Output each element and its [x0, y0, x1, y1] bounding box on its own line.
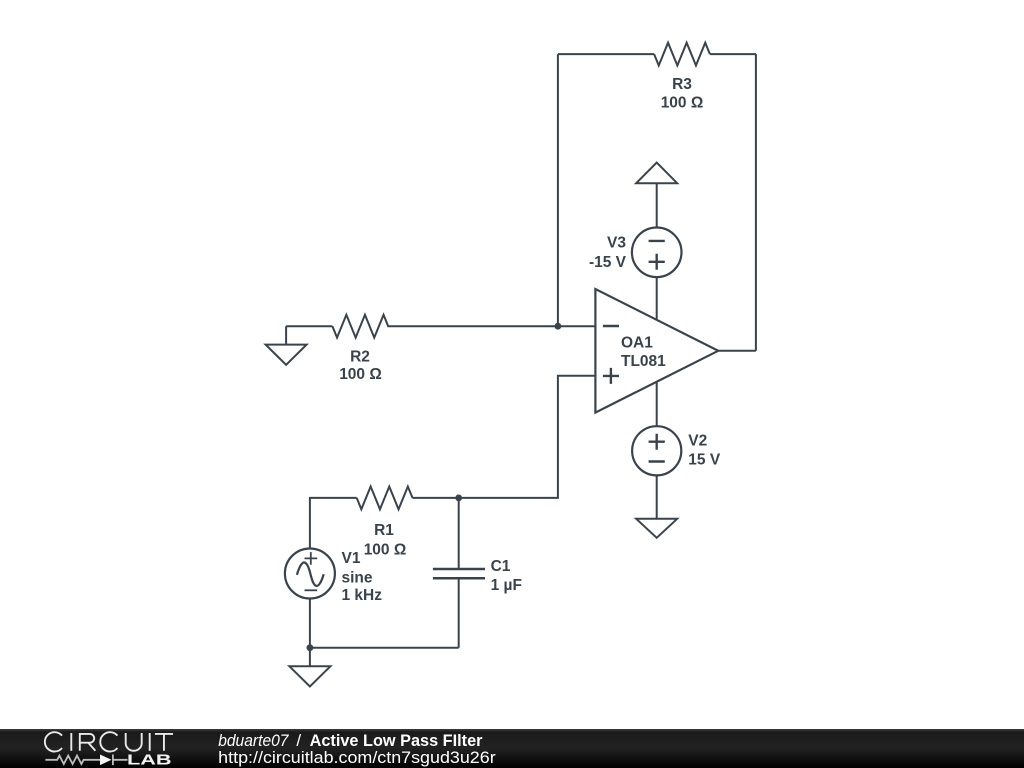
wire feedback top-left lead [558, 53, 654, 55]
wire feedback left vertical [557, 54, 559, 326]
source V2 circle [632, 426, 681, 475]
svg-text:V1: V1 [342, 550, 361, 567]
wire R2 left lead [286, 325, 332, 327]
V2 plus sign [649, 434, 665, 450]
resistor R2 [332, 315, 388, 338]
power flag VCC triangle [636, 163, 677, 184]
svg-text:sine: sine [342, 570, 373, 587]
svg-text:1 µF: 1 µF [491, 577, 522, 594]
logo letter U [126, 733, 142, 751]
ground under V1 [289, 666, 330, 686]
wire R2 to op-amp minus input [387, 325, 595, 327]
wire op-amp plus input [459, 376, 596, 498]
source V3 circle [632, 228, 682, 278]
logo letter R [80, 734, 96, 751]
logo letter C2 [100, 732, 117, 751]
svg-text:100 Ω: 100 Ω [364, 541, 407, 558]
wire feedback top-right lead [710, 53, 756, 55]
V1 sine wave [297, 562, 324, 586]
logo letter I2 [149, 733, 151, 751]
op-amp minus symbol [603, 325, 619, 327]
resistor R1 [357, 487, 413, 510]
wire bottom horizontal to C1 [310, 647, 459, 649]
svg-text:LAB: LAB [127, 752, 172, 768]
svg-text:TL081: TL081 [621, 353, 666, 370]
ground under R2 [266, 345, 307, 365]
wire V3 to op-amp top [656, 277, 658, 320]
svg-text:-15 V: -15 V [589, 254, 627, 271]
source V1 circle [285, 549, 335, 599]
wire ground stem under V1 [309, 648, 311, 667]
resistor R3 [654, 43, 710, 66]
node junction R1 C1 [455, 495, 462, 502]
logo letter C [45, 732, 62, 751]
wire ground stem left [285, 326, 287, 344]
wire VCC to V3 [656, 183, 658, 227]
wire V2 to ground [656, 475, 658, 518]
svg-text:R1: R1 [374, 522, 394, 539]
V3 plus sign [649, 254, 665, 270]
wire C1 bottom lead [458, 578, 460, 647]
svg-text:V3: V3 [607, 234, 626, 251]
wire C1 top lead [458, 498, 460, 569]
footer bar [0, 729, 1024, 768]
capacitor C1 plates [433, 569, 485, 578]
logo diode triangle [100, 755, 112, 766]
op-amp U1 triangle [595, 289, 718, 413]
svg-text:C1: C1 [491, 558, 511, 575]
svg-text:OA1: OA1 [621, 334, 653, 351]
V3 minus sign [649, 240, 665, 242]
V2 minus sign [649, 460, 665, 462]
wire feedback right vertical [755, 54, 757, 351]
svg-text:15 V: 15 V [688, 452, 721, 469]
svg-text:R2: R2 [350, 349, 370, 366]
svg-text:100 Ω: 100 Ω [339, 366, 382, 383]
V1 plus sign [305, 552, 318, 565]
logo letter I [70, 733, 72, 751]
op-amp plus symbol [603, 368, 619, 384]
logo resistor-diode doodle [45, 755, 127, 766]
node junction op-amp minus input [555, 323, 562, 330]
svg-text:V2: V2 [688, 432, 707, 449]
svg-text:R3: R3 [672, 76, 692, 93]
logo letter T [155, 734, 173, 751]
wire op-amp bottom to V2 [656, 382, 658, 427]
CircuitLab logo CIRCUIT letters [45, 732, 173, 751]
wire R1 to V1 corner [310, 498, 357, 549]
svg-text:http://circuitlab.com/ctn7sgud: http://circuitlab.com/ctn7sgud3u26r [218, 748, 496, 767]
ground under V2 [636, 519, 677, 538]
V1 minus sign [305, 589, 318, 591]
svg-text:1 kHz: 1 kHz [342, 587, 383, 604]
wire output [718, 350, 756, 352]
wire V1 bottom [309, 599, 311, 648]
wire junction to R1 [413, 497, 459, 499]
svg-text:100 Ω: 100 Ω [661, 95, 704, 112]
node junction V1 bottom [307, 644, 314, 651]
